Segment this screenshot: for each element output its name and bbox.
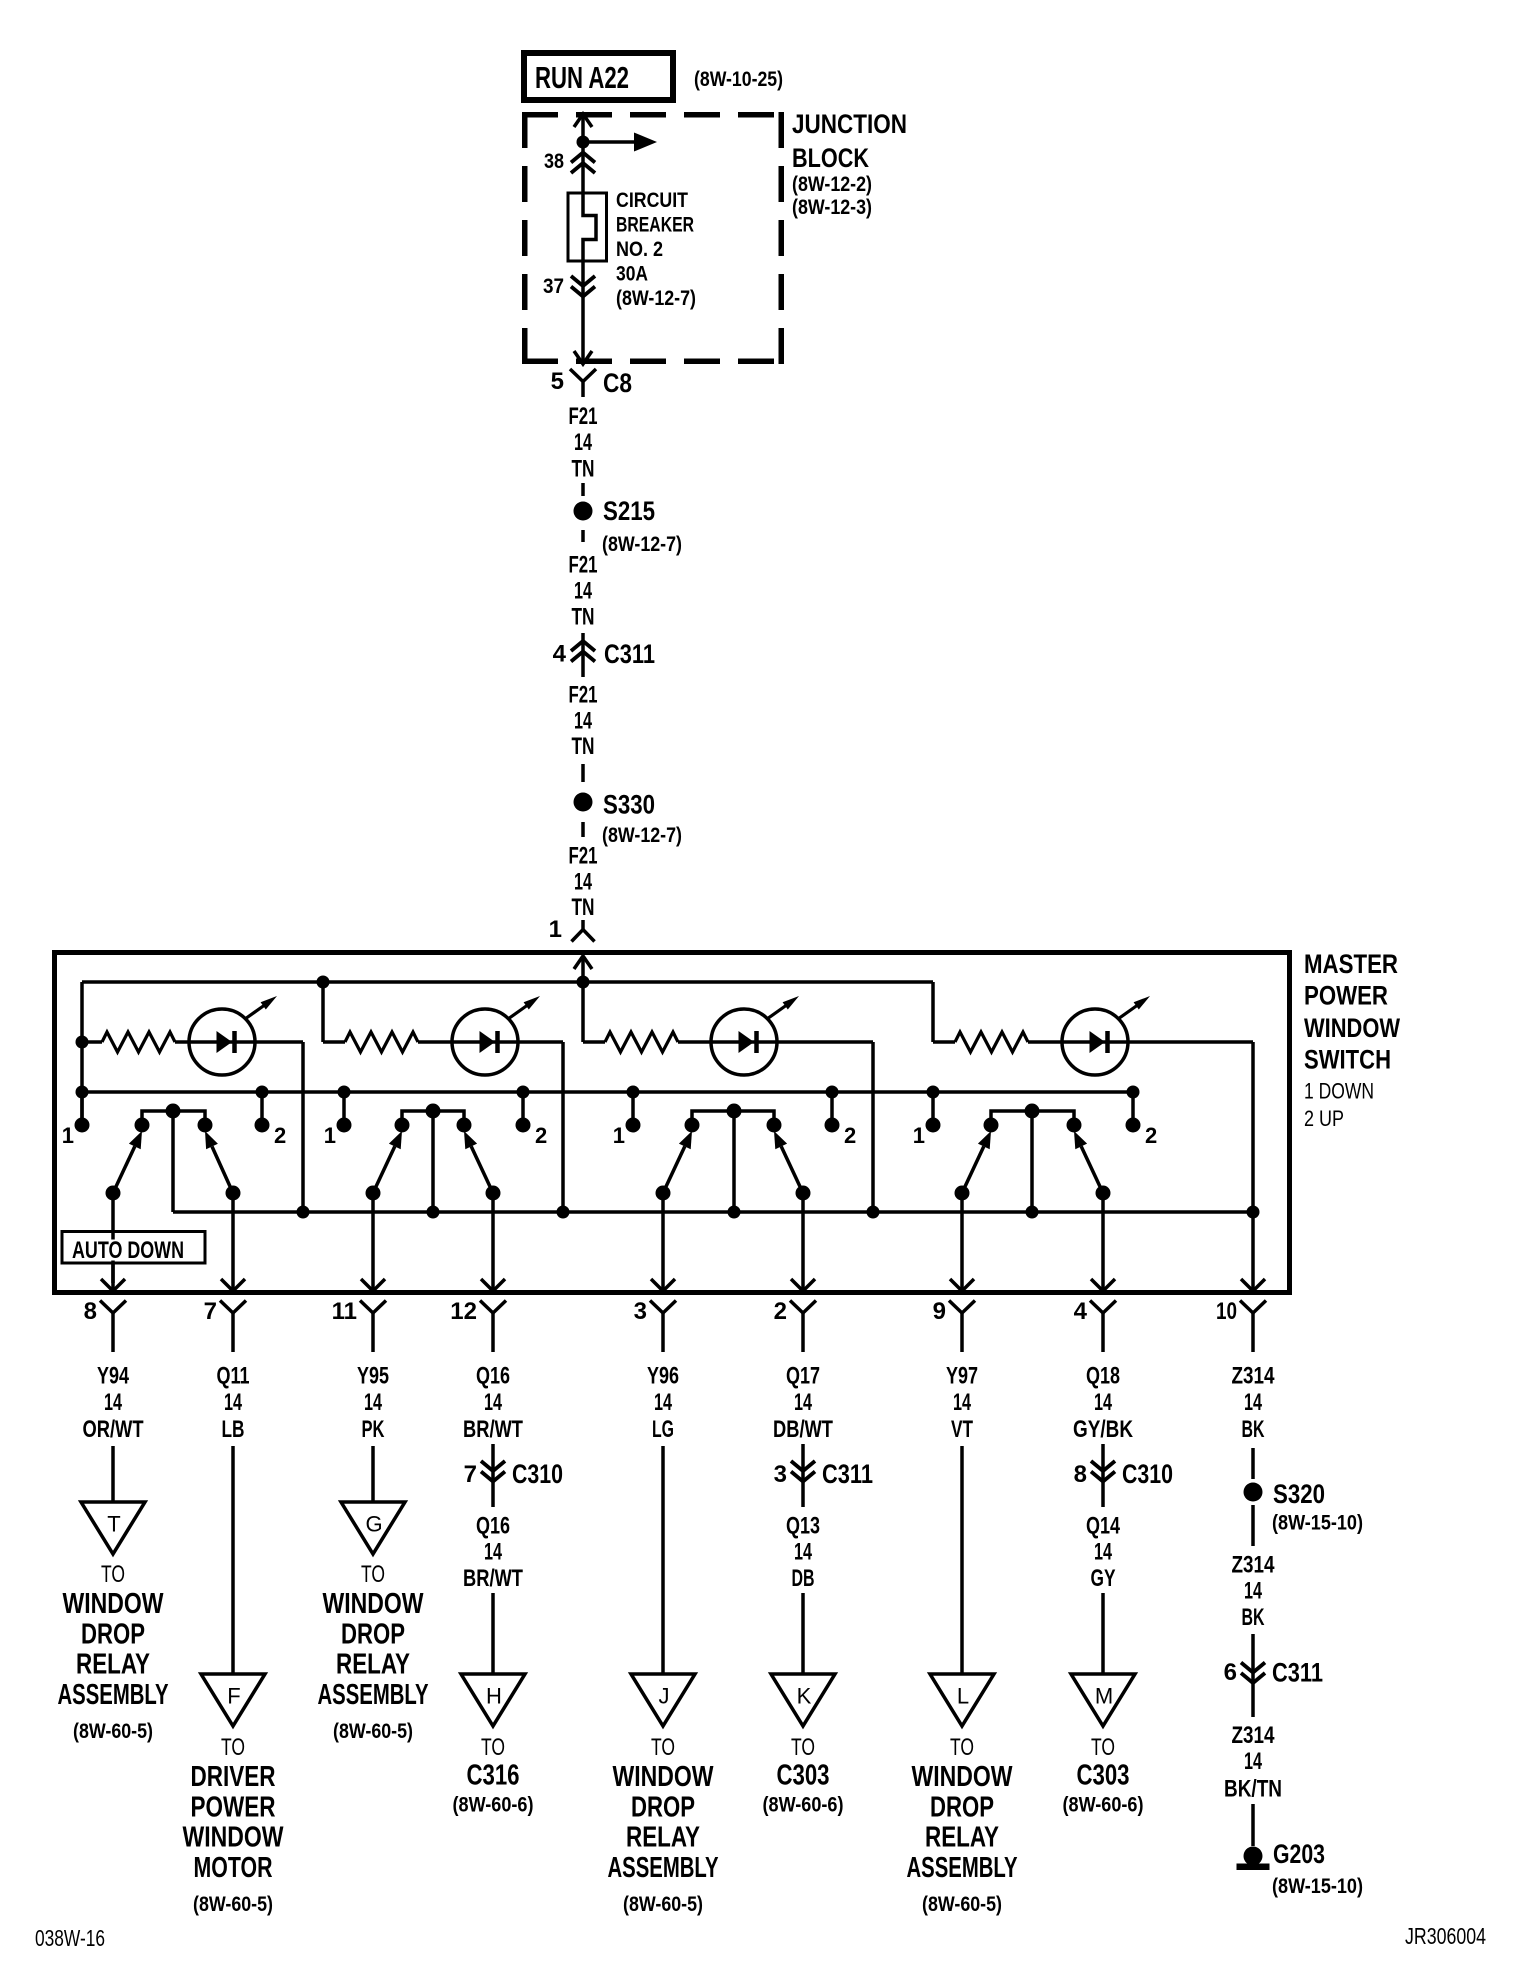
switch pin 8 fork [100, 1301, 126, 1353]
pin 3 label [634, 1298, 647, 1325]
pin 1 entry chevron inside box [574, 956, 592, 982]
svg-text:(8W-60-6): (8W-60-6) [453, 1794, 534, 1817]
contact dot down C (rear left) [685, 1118, 700, 1133]
svg-text:RELAY: RELAY [626, 1822, 700, 1854]
svg-text:30A: 30A [616, 263, 648, 286]
svg-text:F21: F21 [569, 552, 598, 579]
svg-text:Q13: Q13 [786, 1513, 820, 1540]
wire output down-side B (front pass) [361, 1193, 385, 1291]
svg-text:Q17: Q17 [786, 1363, 820, 1390]
switch pin 7 fork [220, 1301, 246, 1353]
connector C310 pin label [464, 1461, 477, 1488]
svg-text:10: 10 [1216, 1298, 1237, 1325]
splice S320 [1244, 1483, 1263, 1502]
wire label Q17 14 DB/WT [773, 1363, 833, 1444]
svg-text:14: 14 [574, 708, 592, 735]
node pivot center A (driver) [166, 1104, 181, 1119]
svg-text:GY/BK: GY/BK [1073, 1416, 1134, 1443]
svg-text:14: 14 [1244, 1578, 1262, 1605]
terminal 1 A (driver) [75, 1118, 90, 1133]
connector T triangle [81, 1502, 145, 1554]
svg-text:DRIVER: DRIVER [191, 1761, 276, 1793]
svg-text:C311: C311 [822, 1459, 873, 1489]
moving contact down C (rear left) [656, 1131, 693, 1201]
moving contact down A (driver) [106, 1131, 143, 1201]
svg-text:AUTO DOWN: AUTO DOWN [72, 1237, 184, 1264]
svg-text:C316: C316 [467, 1760, 520, 1792]
node bus1 main feed [577, 976, 590, 989]
node pivot B (front pass) on return bus [427, 1206, 440, 1219]
resistor illumination A (driver) [82, 1032, 175, 1052]
svg-text:6: 6 [1224, 1659, 1237, 1686]
contact dot up A (driver) [198, 1118, 213, 1133]
svg-text:14: 14 [224, 1389, 242, 1416]
destination label at M [1063, 1734, 1144, 1817]
svg-text:TO: TO [361, 1561, 385, 1588]
pin 4 label [1074, 1298, 1088, 1325]
svg-text:ASSEMBLY: ASSEMBLY [608, 1852, 719, 1884]
svg-text:9: 9 [933, 1298, 946, 1325]
wire LED D (rear right) down to return bus [1251, 1042, 1255, 1212]
svg-text:4: 4 [1074, 1298, 1088, 1325]
moving contact up C (rear left) [774, 1131, 811, 1201]
reference (8W-10-25) [694, 68, 783, 91]
svg-text:TO: TO [1091, 1734, 1115, 1761]
svg-text:12: 12 [450, 1298, 477, 1325]
destination label at K [763, 1734, 844, 1817]
svg-text:K: K [797, 1684, 812, 1709]
svg-text:(8W-12-2): (8W-12-2) [792, 173, 872, 196]
svg-text:2: 2 [774, 1298, 787, 1325]
splice S330 [574, 793, 593, 812]
moving contact up D (rear right) [1074, 1131, 1111, 1201]
svg-text:14: 14 [953, 1389, 971, 1416]
pin 38 label [544, 150, 564, 173]
svg-text:1: 1 [913, 1123, 925, 1148]
node bus2 stub terminal 1 B (front pass) [338, 1086, 351, 1121]
terminal 2 label B (front pass) [535, 1123, 547, 1148]
svg-text:WINDOW: WINDOW [1304, 1013, 1400, 1043]
terminal 2 B (front pass) [516, 1118, 531, 1133]
svg-text:14: 14 [794, 1539, 812, 1566]
node bus2 stub terminal 2 C (rear left) [826, 1086, 839, 1121]
wire pin 10 output [1241, 1212, 1265, 1291]
svg-text:DB: DB [792, 1565, 815, 1592]
wire resistor to LED C (rear left) [678, 1040, 873, 1044]
svg-text:3: 3 [634, 1298, 647, 1325]
terminal 2 A (driver) [255, 1118, 270, 1133]
svg-text:C310: C310 [512, 1459, 563, 1489]
svg-text:BK/TN: BK/TN [1224, 1776, 1282, 1803]
svg-text:5: 5 [551, 368, 564, 395]
svg-text:TN: TN [572, 456, 595, 483]
node bus2 stub terminal 2 B (front pass) [517, 1086, 530, 1121]
svg-text:14: 14 [364, 1389, 382, 1416]
pin 10 label [1216, 1298, 1237, 1325]
destination label at T [58, 1561, 169, 1743]
connector C311 name (ground leg) [1272, 1658, 1323, 1688]
node pivot center D (rear right) [1025, 1104, 1040, 1119]
resistor illumination D (rear right) [933, 1032, 1028, 1052]
drawing number JR306004 [1405, 1923, 1486, 1949]
svg-text:Q11: Q11 [217, 1363, 250, 1390]
svg-text:G203: G203 [1273, 1839, 1325, 1869]
fuse box feed RUN A22 [524, 53, 673, 100]
wire label F21 14 TN (segment 1) [569, 403, 598, 483]
svg-text:C311: C311 [1272, 1658, 1323, 1688]
svg-text:C8: C8 [603, 368, 632, 398]
moving contact down D (rear right) [955, 1131, 992, 1201]
wire feed switch C (rear left) [581, 982, 585, 1042]
junction block label [792, 109, 907, 219]
svg-text:TO: TO [950, 1734, 974, 1761]
wire to connector G [371, 1446, 375, 1502]
splice S215 [574, 502, 593, 521]
node LED C (rear left) on return bus [867, 1206, 880, 1219]
svg-text:RELAY: RELAY [336, 1649, 410, 1681]
pin 11 label [332, 1298, 357, 1325]
connector chevrons pin 38 [571, 153, 595, 174]
svg-text:WINDOW: WINDOW [183, 1822, 284, 1854]
contact dot down A (driver) [135, 1118, 150, 1133]
wire label Q11 14 LB [217, 1363, 250, 1444]
connector C311 label [604, 639, 655, 669]
svg-text:J: J [659, 1684, 670, 1709]
svg-text:TO: TO [651, 1734, 675, 1761]
svg-text:1: 1 [549, 916, 562, 943]
svg-text:14: 14 [1244, 1748, 1262, 1775]
switch pin 12 fork [480, 1301, 506, 1353]
connector C310 pin label [1074, 1461, 1087, 1488]
wire dash above S330 [581, 764, 585, 782]
wire from RUN A22 into junction block [574, 114, 592, 192]
svg-text:PK: PK [362, 1416, 385, 1443]
connector C311 name [822, 1459, 873, 1489]
svg-text:37: 37 [543, 275, 564, 298]
connector C311 pin 6 chevrons [1241, 1634, 1265, 1717]
wire label Z314 14 BK (segment 1) [1232, 1363, 1276, 1444]
node resistor A (driver) feed [76, 1036, 89, 1049]
moving contact up B (front pass) [464, 1131, 501, 1201]
svg-text:L: L [957, 1684, 969, 1709]
svg-text:TO: TO [221, 1734, 245, 1761]
svg-text:WINDOW: WINDOW [63, 1588, 164, 1620]
svg-text:Z314: Z314 [1232, 1552, 1276, 1579]
svg-text:DROP: DROP [81, 1618, 145, 1650]
wire output up-side B (front pass) [481, 1193, 505, 1291]
svg-text:8: 8 [84, 1298, 97, 1325]
wire pivot B (front pass) to return bus [431, 1111, 435, 1212]
svg-text:TN: TN [572, 894, 595, 921]
rocker pivot bar B (front pass) [402, 1111, 464, 1121]
svg-text:S215: S215 [603, 496, 655, 526]
pin 6 label [1224, 1659, 1237, 1686]
switch pin 2 fork [790, 1301, 816, 1353]
svg-text:DROP: DROP [930, 1791, 994, 1823]
LED illumination lamp D (rear right) [1062, 996, 1150, 1075]
terminal 1 C (rear left) [626, 1118, 641, 1133]
LED illumination lamp B (front pass) [452, 996, 540, 1075]
svg-text:OR/WT: OR/WT [83, 1416, 144, 1443]
terminal 1 label D (rear right) [913, 1123, 925, 1148]
svg-text:14: 14 [574, 429, 592, 456]
node pivot D (rear right) on return bus [1026, 1206, 1039, 1219]
svg-text:038W-16: 038W-16 [35, 1925, 105, 1951]
wire to connector L [960, 1446, 964, 1674]
connector C8 label [603, 368, 632, 398]
svg-text:T: T [107, 1512, 120, 1537]
destination label at L [907, 1734, 1018, 1916]
contact dot down B (front pass) [395, 1118, 410, 1133]
pin 9 label [933, 1298, 946, 1325]
svg-text:S320: S320 [1273, 1479, 1325, 1509]
wire dash above S215 [581, 483, 585, 496]
wire breaker to junction block exit [581, 262, 585, 364]
svg-text:(8W-12-7): (8W-12-7) [602, 824, 682, 847]
wire label Y96 14 LG [647, 1363, 679, 1444]
svg-text:C303: C303 [1077, 1760, 1130, 1792]
junction block exit arrow [574, 351, 592, 364]
circuit breaker No. 2 body [568, 193, 607, 263]
wire to connector J [661, 1446, 665, 1674]
svg-text:TN: TN [572, 604, 595, 631]
svg-text:1 DOWN: 1 DOWN [1304, 1079, 1374, 1104]
connector C310 pin 7 chevrons [481, 1444, 505, 1507]
svg-text:POWER: POWER [191, 1791, 276, 1823]
pin 5 label [551, 368, 564, 395]
wire label Q13 14 DB [786, 1513, 820, 1593]
svg-text:14: 14 [574, 578, 592, 605]
connector H triangle [461, 1674, 525, 1726]
svg-text:Z314: Z314 [1232, 1722, 1276, 1749]
node LED A (driver) on return bus [297, 1206, 310, 1219]
connector G triangle [341, 1502, 405, 1554]
svg-text:ASSEMBLY: ASSEMBLY [58, 1679, 169, 1711]
svg-text:(8W-15-10): (8W-15-10) [1272, 1875, 1363, 1898]
svg-text:BK: BK [1242, 1416, 1265, 1443]
svg-text:TN: TN [572, 733, 595, 760]
svg-text:2: 2 [844, 1123, 856, 1148]
wire resistor to LED D (rear right) [1028, 1040, 1253, 1044]
node bus2 stub terminal 1 C (rear left) [627, 1086, 640, 1121]
connector J triangle [631, 1674, 695, 1726]
wire label Y94 14 OR/WT [83, 1363, 144, 1444]
svg-text:C303: C303 [777, 1760, 830, 1792]
svg-text:(8W-60-5): (8W-60-5) [73, 1720, 153, 1743]
wire label Q18 14 GY/BK [1073, 1363, 1134, 1444]
ground G203 symbol [1237, 1847, 1270, 1871]
connector M triangle [1071, 1674, 1135, 1726]
wire label Y95 14 PK [357, 1363, 389, 1444]
wire pivot D (rear right) to return bus [1030, 1111, 1034, 1212]
svg-text:4: 4 [553, 641, 567, 668]
svg-text:VT: VT [951, 1416, 973, 1443]
svg-text:14: 14 [794, 1389, 812, 1416]
node pivot center B (front pass) [426, 1104, 441, 1119]
svg-text:2: 2 [1145, 1123, 1157, 1148]
svg-text:JR306004: JR306004 [1405, 1923, 1486, 1949]
svg-text:2: 2 [535, 1123, 547, 1148]
pin 7 label [204, 1298, 217, 1325]
node return bus pin10 corner [1247, 1206, 1260, 1219]
svg-text:1: 1 [324, 1123, 336, 1148]
svg-text:TO: TO [101, 1561, 125, 1588]
svg-text:38: 38 [544, 150, 564, 173]
svg-text:8: 8 [1074, 1461, 1087, 1488]
svg-text:TO: TO [481, 1734, 505, 1761]
svg-text:14: 14 [1094, 1539, 1112, 1566]
svg-text:SWITCH: SWITCH [1304, 1045, 1391, 1075]
svg-text:F: F [227, 1684, 240, 1709]
moving contact up A (driver) [205, 1131, 241, 1201]
supply bus (top) [82, 980, 933, 984]
terminal 2 label C (rear left) [844, 1123, 856, 1148]
circuit breaker label [616, 189, 696, 310]
wire label F21 14 TN (segment 2) [569, 552, 598, 631]
wire output up-side D (rear right) [1091, 1193, 1115, 1291]
svg-text:POWER: POWER [1304, 981, 1388, 1011]
svg-text:JUNCTION: JUNCTION [792, 109, 907, 139]
contact dot up B (front pass) [457, 1118, 472, 1133]
destination label at G [318, 1561, 429, 1743]
connector C311 pin label [774, 1461, 787, 1488]
wire output up-side A (driver) [221, 1193, 245, 1291]
svg-text:DB/WT: DB/WT [773, 1416, 833, 1443]
svg-text:F21: F21 [569, 682, 598, 709]
svg-text:14: 14 [1094, 1389, 1112, 1416]
pin 1 label [549, 916, 562, 943]
moving contact down B (front pass) [366, 1131, 403, 1201]
junction block dashed box [522, 112, 784, 364]
connector chevrons pin 37 [571, 276, 595, 297]
svg-text:F21: F21 [569, 403, 598, 430]
switch common bus [82, 1090, 1133, 1094]
wire feed switch D (rear right) [931, 982, 935, 1042]
wire label Q16 14 BR/WT [463, 1363, 523, 1444]
wire to splice S320 [1251, 1448, 1255, 1479]
destination label at H [453, 1734, 534, 1817]
resistor illumination C (rear left) [583, 1032, 678, 1052]
master switch label [1304, 949, 1400, 1075]
switch pin 9 fork [949, 1301, 975, 1353]
node LED B (front pass) on return bus [557, 1206, 570, 1219]
svg-text:ASSEMBLY: ASSEMBLY [318, 1679, 429, 1711]
svg-text:C311: C311 [604, 639, 655, 669]
svg-text:(8W-15-10): (8W-15-10) [1272, 1512, 1363, 1535]
connector F triangle [201, 1674, 265, 1726]
rocker pivot bar A (driver) [142, 1111, 205, 1121]
svg-text:Y95: Y95 [357, 1363, 389, 1390]
svg-text:14: 14 [484, 1389, 502, 1416]
wire feed switch A (driver) [80, 982, 84, 1125]
svg-text:MOTOR: MOTOR [194, 1852, 273, 1884]
svg-text:2: 2 [274, 1123, 286, 1148]
contact dot up C (rear left) [767, 1118, 782, 1133]
svg-text:BREAKER: BREAKER [616, 214, 694, 237]
node pivot C (rear left) on return bus [728, 1206, 741, 1219]
svg-text:Q16: Q16 [476, 1363, 510, 1390]
svg-text:Z314: Z314 [1232, 1363, 1276, 1390]
destination label at J [608, 1734, 719, 1916]
svg-text:1: 1 [613, 1123, 625, 1148]
wire to connector M [1101, 1593, 1105, 1674]
svg-text:BK: BK [1242, 1604, 1265, 1631]
svg-text:WINDOW: WINDOW [912, 1761, 1013, 1793]
wire to connector K [801, 1593, 805, 1674]
svg-text:WINDOW: WINDOW [613, 1761, 714, 1793]
splice S330 label [602, 790, 682, 848]
node bus2 stub terminal 1 D (rear right) [927, 1086, 940, 1121]
svg-text:F21: F21 [569, 843, 598, 870]
terminal 1 label A (driver) [62, 1123, 74, 1148]
node bus2 stub terminal 2 D (rear right) [1127, 1086, 1140, 1121]
switch pin 3 fork [650, 1301, 676, 1353]
terminal 1 B (front pass) [337, 1118, 352, 1133]
svg-text:(8W-10-25): (8W-10-25) [694, 68, 783, 91]
svg-text:G: G [365, 1512, 382, 1537]
svg-text:11: 11 [332, 1298, 357, 1325]
wire label Z314 14 BK/TN [1224, 1722, 1282, 1803]
destination label at F [183, 1734, 284, 1916]
master power window switch box [55, 953, 1290, 1293]
svg-text:WINDOW: WINDOW [323, 1588, 424, 1620]
ground G203 label [1272, 1839, 1363, 1898]
wire to connector H [491, 1593, 495, 1674]
wire LED C (rear left) down to return bus [871, 1042, 875, 1212]
wire resistor to LED A (driver) [175, 1040, 303, 1044]
svg-text:GY: GY [1091, 1565, 1116, 1592]
svg-text:(8W-12-7): (8W-12-7) [602, 533, 682, 556]
svg-text:LB: LB [222, 1416, 245, 1443]
svg-text:(8W-60-5): (8W-60-5) [193, 1893, 273, 1916]
svg-text:(8W-60-6): (8W-60-6) [1063, 1794, 1144, 1817]
svg-text:1: 1 [62, 1123, 74, 1148]
terminal 1 D (rear right) [926, 1118, 941, 1133]
svg-text:BR/WT: BR/WT [463, 1416, 523, 1443]
svg-text:2 UP: 2 UP [1304, 1106, 1344, 1131]
svg-text:7: 7 [204, 1298, 217, 1325]
LED illumination lamp A (driver) [189, 996, 277, 1075]
wire output down-side C (rear left) [651, 1193, 675, 1291]
wire label Q14 14 GY [1086, 1513, 1120, 1593]
svg-text:14: 14 [574, 869, 592, 896]
svg-text:14: 14 [654, 1389, 672, 1416]
node pivot center C (rear left) [727, 1104, 742, 1119]
branch arrow to other circuits [583, 133, 657, 152]
connector C311 pin 3 chevrons [791, 1444, 815, 1507]
switch pin 1 fork [572, 920, 595, 942]
wire output down-side D (rear right) [950, 1193, 974, 1291]
svg-text:Y94: Y94 [97, 1363, 129, 1390]
svg-text:LG: LG [652, 1416, 674, 1443]
pin 37 label [543, 275, 564, 298]
wire pivot C (rear left) to return bus [732, 1111, 736, 1212]
splice S320 label [1272, 1479, 1363, 1535]
wire dash below S330 [581, 822, 585, 837]
illumination return bus (bottom) [173, 1210, 1253, 1214]
svg-text:DROP: DROP [341, 1618, 405, 1650]
connector C311 pin 4 chevrons [571, 633, 595, 677]
terminal 2 D (rear right) [1126, 1118, 1141, 1133]
splice S215 label [602, 496, 682, 556]
wire dash below S215 [581, 530, 585, 542]
svg-text:(8W-60-5): (8W-60-5) [333, 1720, 413, 1743]
svg-text:Y96: Y96 [647, 1363, 679, 1390]
legend 1 DOWN 2 UP [1304, 1079, 1374, 1132]
svg-text:14: 14 [104, 1389, 122, 1416]
pin 12 label [450, 1298, 477, 1325]
svg-text:NO. 2: NO. 2 [616, 238, 663, 261]
